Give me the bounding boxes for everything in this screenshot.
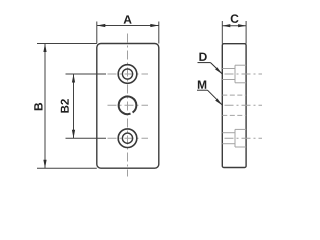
dimension C arrow left <box>222 24 230 27</box>
dimension B line <box>44 44 46 169</box>
side hole H2 centerline <box>225 104 263 106</box>
front vertical centerline <box>127 34 129 177</box>
hole H3 inner circle <box>122 133 132 143</box>
hole H1 outer circle <box>118 65 137 84</box>
side hole H3 counterbore left <box>234 129 236 147</box>
dimension B2 arrow bottom <box>72 130 75 139</box>
side hole H3 counterbore bottom <box>235 146 246 148</box>
dimension A line <box>97 25 159 27</box>
dimension A extension line right <box>158 22 160 44</box>
dimension B extension line bottom <box>37 167 97 169</box>
label M leader underline <box>197 89 208 91</box>
side hole H1 counterbore left <box>234 65 236 83</box>
label M leader arrow <box>215 98 222 105</box>
dimension B2 extension line top <box>66 73 107 75</box>
dimension A arrow left <box>97 24 106 27</box>
side hole H2 hidden line bottom <box>222 114 246 116</box>
label D leader diagonal <box>211 63 223 74</box>
side hole H1 counterbore top <box>235 64 246 66</box>
hole H3 outer circle <box>118 129 137 148</box>
side hole H1 pilot line top <box>222 68 235 70</box>
dimension B2 arrow top <box>72 74 75 83</box>
hole H3 crosshair <box>108 137 149 139</box>
side view plate outline <box>222 44 246 168</box>
dimension B arrow top <box>43 44 46 53</box>
label M text <box>198 81 206 89</box>
side hole H3 centerline <box>225 137 263 139</box>
side hole H1 centerline <box>225 73 263 75</box>
dimension C text <box>231 14 239 23</box>
side hole H3 pilot line bottom <box>222 143 235 145</box>
side hole H3 counterbore top <box>235 128 246 130</box>
side hole H3 pilot line top <box>222 132 235 134</box>
label D leader underline <box>198 62 211 64</box>
side hole H1 pilot line bottom <box>222 79 235 81</box>
dimension B extension line top <box>37 43 97 45</box>
dimension C arrow right <box>238 24 246 27</box>
front view plate outline <box>97 44 159 169</box>
label D leader arrow <box>215 67 222 74</box>
dimension B2 line <box>73 74 75 138</box>
dimension B2 text <box>61 99 69 112</box>
dimension A text <box>124 15 132 23</box>
dimension C extension line right <box>245 21 247 44</box>
dimension C line <box>222 25 246 27</box>
hole H2 threaded circle <box>119 96 137 114</box>
label M leader diagonal <box>208 90 223 105</box>
dimension B arrow bottom <box>43 160 46 169</box>
dimension A arrow right <box>150 24 159 27</box>
hole H1 inner circle <box>122 69 132 79</box>
side hole H2 hidden line top <box>222 94 246 96</box>
hole H1 crosshair <box>108 73 149 75</box>
dimension A extension line left <box>96 22 98 44</box>
dimension B2 extension line bottom <box>66 137 107 139</box>
dimension C extension line left <box>221 21 223 44</box>
label D text <box>199 53 206 61</box>
dimension B text <box>34 103 42 110</box>
side hole H1 counterbore bottom <box>235 82 246 84</box>
hole H2 crosshair <box>108 104 149 106</box>
